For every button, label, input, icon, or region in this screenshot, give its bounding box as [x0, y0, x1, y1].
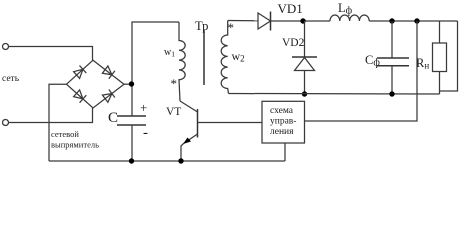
svg-text:-: -	[143, 125, 148, 141]
svg-text:w1: w1	[164, 47, 175, 59]
svg-text:Тр: Тр	[195, 19, 208, 33]
svg-text:+: +	[140, 100, 147, 115]
resistor Rн top lead	[439, 21, 441, 43]
svg-text:w2: w2	[232, 49, 245, 64]
node junction dot Cф bottom	[389, 91, 394, 96]
wire top terminal to bridge top vertex	[9, 47, 93, 61]
wire bridge minus: left vertex to bottom rail	[49, 84, 67, 161]
wire bridge plus to node	[124, 83, 132, 85]
node junction dot after VD1	[300, 18, 305, 23]
wire Lф to output node	[369, 20, 457, 22]
wire VD2 top lead	[304, 21, 306, 57]
control block bottom lead to rail	[284, 143, 286, 161]
node junction dot bridge plus	[129, 81, 134, 86]
svg-text:VT: VT	[166, 106, 181, 118]
bridge rectifier diamond	[67, 60, 125, 108]
capacitor Cф bottom lead	[391, 66, 393, 94]
control block box	[262, 101, 305, 143]
transistor VT emitter lead	[181, 144, 184, 162]
svg-text:Rн: Rн	[416, 56, 429, 71]
svg-text:C: C	[108, 110, 118, 126]
svg-text:сеть: сеть	[2, 74, 20, 84]
transistor VT emitter diagonal with arrow	[184, 134, 198, 144]
winding w2	[221, 21, 228, 94]
svg-text:выпрямитель: выпрямитель	[51, 140, 99, 150]
transistor VT base bar	[197, 109, 199, 138]
svg-text:схема: схема	[270, 106, 294, 116]
wire bottom terminal to bridge bottom vertex	[9, 108, 93, 123]
svg-text:*: *	[228, 20, 235, 35]
resistor Rн bottom lead	[439, 72, 441, 95]
svg-text:Cф: Cф	[365, 53, 380, 69]
resistor Rн body	[433, 43, 447, 72]
capacitor C plates	[117, 116, 146, 125]
diode VD1	[258, 13, 271, 29]
wire output right loop	[440, 21, 458, 91]
terminal top input	[3, 44, 9, 50]
node junction dot Cф top	[389, 18, 394, 23]
svg-text:сетевой: сетевой	[51, 129, 79, 139]
node junction dot emitter on rail	[178, 158, 183, 163]
capacitor Cф top lead	[391, 21, 393, 58]
wire bottom rail	[49, 160, 285, 162]
svg-text:управ-: управ-	[270, 117, 296, 127]
bridge diode D2	[102, 66, 112, 75]
node junction dot C bottom on rail	[129, 158, 134, 163]
bridge diode D1	[74, 69, 83, 78]
winding w1	[179, 22, 185, 101]
node junction dot VD2 bottom	[302, 91, 307, 96]
svg-text:VD2: VD2	[282, 37, 305, 49]
transformer core Tp	[203, 30, 205, 85]
bridge diode D3	[74, 90, 83, 99]
inductor Lф	[330, 15, 369, 21]
wire VD2 bottom lead	[304, 71, 306, 95]
wire secondary top w2 to VD1	[228, 20, 258, 22]
svg-text:VD1: VD1	[278, 1, 303, 16]
diode VD2 cathode bar	[292, 56, 317, 58]
wire VD1 to node	[271, 20, 331, 22]
wire DC plus vertical and primary top rail	[132, 22, 179, 116]
wire capacitor C bottom to rail	[131, 125, 133, 161]
wire secondary bottom rail	[229, 93, 440, 96]
capacitor Cф plates	[377, 58, 409, 66]
wire base to control block	[198, 122, 263, 124]
node junction dot feedback tap	[414, 18, 419, 23]
terminal bottom input	[3, 120, 9, 126]
bridge diode D4	[102, 94, 112, 103]
svg-text:*: *	[171, 76, 178, 91]
diode VD2 triangle	[295, 58, 315, 71]
svg-text:ления: ления	[270, 127, 294, 137]
transistor VT collector diagonal	[180, 101, 198, 112]
svg-text:Lф: Lф	[338, 1, 353, 17]
feedback wire from output node to control block	[305, 21, 418, 121]
